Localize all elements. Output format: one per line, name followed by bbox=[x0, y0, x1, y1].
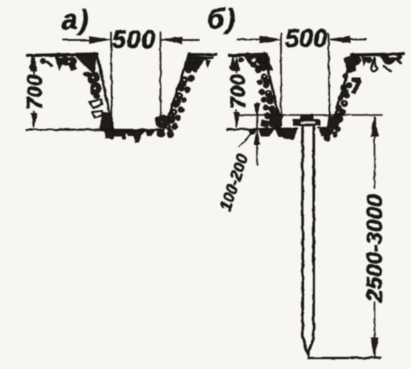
dimension 700 pit a depth bbox=[24, 57, 47, 128]
electrode cap head bbox=[294, 116, 320, 126]
dimension 100-200 electrode protrusion above pit bottom bbox=[218, 103, 260, 213]
pit b right slope with hatching bbox=[328, 54, 361, 134]
pit a bottom line with hatching below bbox=[26, 130, 172, 143]
rod electrode bbox=[303, 126, 314, 355]
svg-text:а): а) bbox=[62, 4, 90, 35]
electrode top level extension line bbox=[239, 114, 382, 116]
ground surface left of pit b with hatching bbox=[229, 53, 272, 70]
svg-text:б): б) bbox=[207, 3, 237, 34]
svg-text:700: 700 bbox=[24, 74, 47, 109]
electrode tip level extension line bbox=[308, 357, 380, 359]
pit a right slope with hatching bbox=[156, 54, 206, 138]
ground surface left of pit a with soil hatching bbox=[28, 54, 97, 76]
label b) bbox=[207, 3, 237, 34]
dimension 500 pit b bottom width bbox=[238, 25, 366, 126]
label a) bbox=[62, 4, 90, 35]
svg-text:700: 700 bbox=[227, 74, 250, 109]
pit b bottom line with hatching below bbox=[227, 128, 338, 141]
pit a left slope with hatching bbox=[88, 54, 116, 139]
pit b left slope with hatching bbox=[255, 53, 283, 130]
svg-text:2500-3000: 2500-3000 bbox=[362, 194, 387, 303]
dimension 500 pit a bottom width bbox=[63, 26, 199, 129]
dimension 2500-3000 electrode driven depth bbox=[362, 117, 387, 358]
ground surface right of pit b with hatching bbox=[352, 54, 403, 71]
svg-text:500: 500 bbox=[285, 25, 327, 53]
ground surface right of pit a with hatching bbox=[189, 55, 216, 73]
dimension 700 pit b depth bbox=[227, 57, 250, 128]
svg-text:500: 500 bbox=[112, 26, 156, 54]
